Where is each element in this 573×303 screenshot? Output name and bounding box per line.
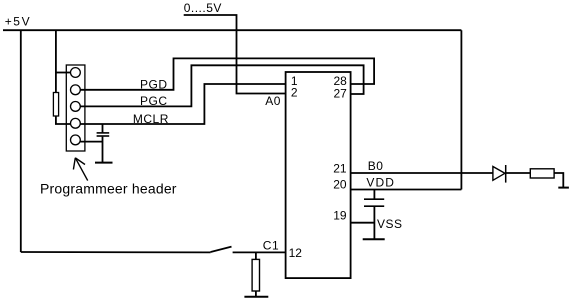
wire: +5V drop to pullup resistor (55, 30, 57, 92)
+5V power rail (top horizontal) (3, 29, 461, 31)
capacitor C2 plates (97, 132, 110, 134)
diode D1 anode triangle (493, 167, 505, 181)
wire: switch to IC pin 12 (233, 251, 286, 253)
svg-text:MCLR: MCLR (133, 112, 169, 126)
capacitor C3 plates (364, 198, 384, 200)
connector J1 pin 2 (71, 85, 81, 95)
svg-text:Programmeer header: Programmeer header (40, 180, 177, 196)
connector J1 pin 3 (71, 102, 81, 112)
wire: diode to resistor R2 (506, 172, 531, 174)
svg-text:B0: B0 (368, 159, 384, 173)
svg-text:27: 27 (334, 87, 348, 101)
capacitor C1 top stub (255, 252, 257, 259)
svg-text:19: 19 (333, 209, 347, 223)
resistor R2 (series, IEC box) (530, 169, 554, 178)
svg-text:VDD: VDD (366, 176, 395, 190)
wire: resistor bottom to header pin 4 (56, 116, 71, 124)
svg-text:VSS: VSS (377, 217, 403, 231)
ground bar (C1) (244, 296, 268, 298)
capacitor C2 top stub from MCLR wire (102, 124, 104, 132)
ground bar (VSS) (363, 238, 385, 240)
wire: VDD pin 20 to +5V drop (351, 189, 462, 191)
capacitor C2 bottom lead (102, 137, 104, 163)
svg-text:PGC: PGC (140, 94, 168, 108)
connector J1 pin 1 (71, 68, 81, 78)
op IC U1 body (28-pin) (286, 72, 351, 278)
wire: 0....5V underline and drop to IC pin 2 (A0) (184, 15, 286, 94)
capacitor C3 stub from VDD wire (373, 190, 375, 199)
wire MCLR: header pin 4 to IC pin 1 (80, 84, 285, 124)
connector J1 pin 4 (71, 118, 81, 128)
capacitor C3 bottom lead to ground (373, 207, 375, 239)
wire VSS: IC pin 19 to capacitor lead (351, 222, 375, 224)
wire: bottom run to switch (21, 251, 211, 253)
switch S1 (open blade) (211, 247, 232, 252)
wire PGC: header pin 3 to IC pin 27 (80, 65, 363, 106)
wire PGD: header pin 2 to IC pin 28 (80, 58, 374, 89)
svg-text:+5V: +5V (5, 15, 32, 29)
resistor R1 (MCLR pull-up, IEC box) (53, 93, 58, 117)
wire B0: IC pin 21 to diode (351, 172, 493, 174)
svg-text:12: 12 (289, 246, 303, 260)
diode D1 cathode bar (505, 165, 507, 183)
capacitor C1 bottom stub (255, 291, 257, 297)
svg-text:A0: A0 (265, 94, 281, 108)
capacitor C1 body (box symbol) (252, 259, 259, 291)
svg-text:2: 2 (291, 86, 298, 100)
svg-text:20: 20 (333, 178, 347, 192)
connector J1: programmer header body (66, 65, 85, 151)
svg-text:PGD: PGD (140, 78, 168, 92)
ground bar (capacitor C2) (95, 162, 113, 164)
svg-text:0....5V: 0....5V (184, 1, 222, 15)
wire: resistor R2 to ground (554, 173, 563, 188)
wire: header pin 5 to capacitor lead (80, 141, 102, 143)
connector J1 pin 5 (71, 135, 81, 145)
wire: +5V rail right drop to VDD (460, 30, 462, 189)
svg-text:C1: C1 (263, 239, 279, 253)
svg-text:28: 28 (334, 74, 348, 88)
svg-text:21: 21 (333, 162, 347, 176)
annotation arrow to programmer header (75, 158, 87, 181)
wire: header pin 1 to +5V branch (56, 72, 71, 74)
ground bar (right) (558, 187, 569, 189)
wire: left +5V drop down to bottom (20, 30, 22, 252)
